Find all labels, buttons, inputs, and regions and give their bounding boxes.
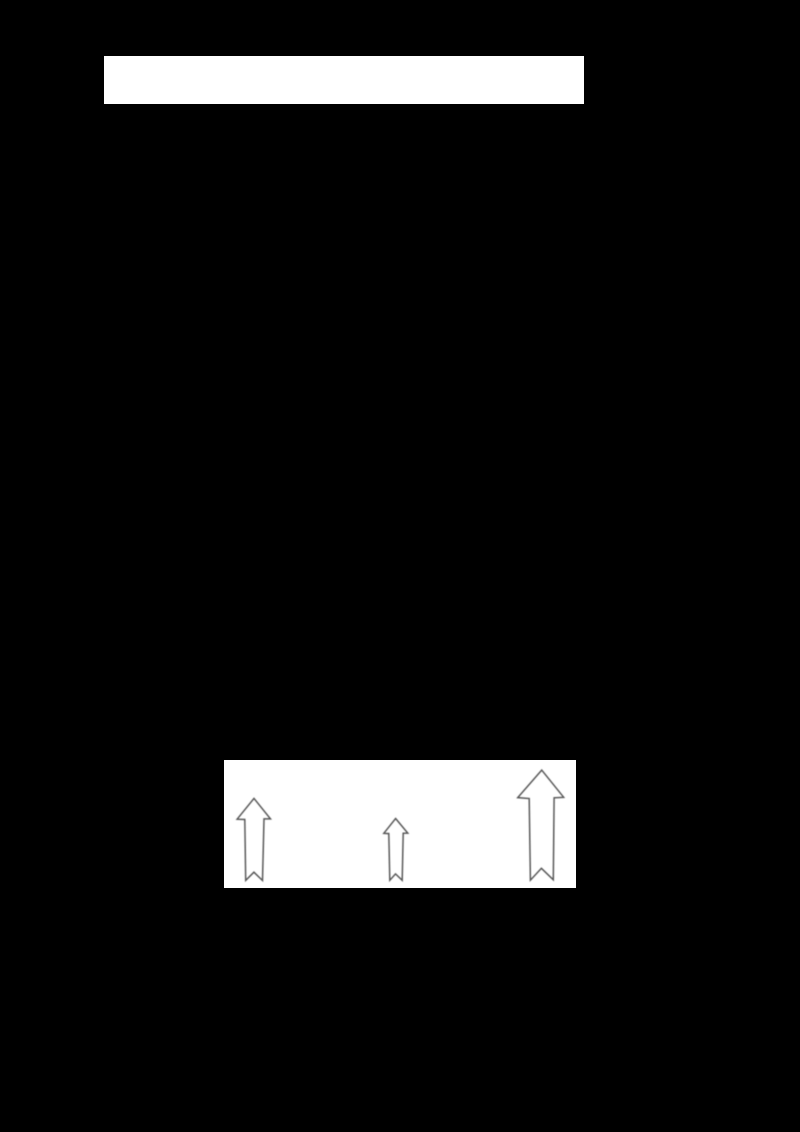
arrow right (large) [518,770,564,880]
top white panel [104,56,584,104]
arrow middle (small) [384,819,408,881]
bottom white panel (arrow figure) [224,760,576,888]
arrow left (medium) [237,798,270,880]
